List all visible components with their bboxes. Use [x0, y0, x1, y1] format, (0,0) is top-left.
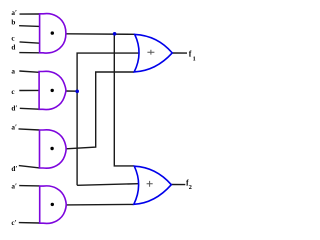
- svg-text:2: 2: [189, 184, 192, 191]
- svg-text:d: d: [11, 43, 15, 51]
- OR gate U1 for f1: [134, 34, 172, 72]
- wire input c of G1: [20, 42, 40, 43]
- wire input d' of G3: [19, 166, 40, 168]
- svg-text:c: c: [11, 34, 15, 42]
- G3 AND dot: [50, 147, 53, 150]
- wire G2 output stub: [66, 90, 77, 92]
- wire input a of G2: [19, 71, 39, 72]
- svg-text:f: f: [189, 49, 192, 58]
- wire G3 output up to OR1 bottom input: [66, 72, 134, 149]
- AND gate G2 (acd'): [39, 71, 66, 109]
- svg-text:1: 1: [193, 55, 196, 62]
- wire input a' of G1: [20, 13, 40, 15]
- svg-text:d′: d′: [11, 165, 17, 173]
- AND gate G1 (a'bcd): [40, 14, 66, 53]
- svg-text:b: b: [11, 19, 15, 27]
- wire G2 node vertical up then right to OR1 middle: [77, 53, 139, 185]
- wire G2 node down corner to OR2 middle: [77, 184, 138, 186]
- wire input d of G1: [19, 52, 39, 54]
- wire input c' of G4: [19, 222, 40, 224]
- wire input b of G1: [19, 25, 39, 28]
- svg-text:d′: d′: [11, 105, 17, 113]
- G1 AND dot: [51, 31, 54, 34]
- wire input a' of G3: [19, 129, 40, 130]
- OR1 plus sign: [147, 50, 154, 55]
- wire OR1 output to f1: [172, 52, 187, 54]
- node junction dot on G1 output: [113, 32, 117, 36]
- node junction dot on G2 output: [75, 90, 79, 94]
- G2 AND dot: [51, 89, 54, 92]
- wire OR2 output to f2: [171, 184, 185, 186]
- wire input c of G2: [19, 89, 39, 91]
- wire input d' of G2: [20, 107, 39, 110]
- svg-text:a: a: [11, 68, 15, 76]
- wire input a' of G4: [19, 185, 40, 187]
- wire node vertical down to OR2 top input: [114, 34, 134, 166]
- AND gate G3 (a'd'): [40, 130, 67, 168]
- G4 AND dot: [51, 203, 54, 206]
- OR gate U2 for f2: [134, 166, 172, 204]
- AND gate G4 (a'c'): [40, 186, 66, 224]
- svg-text:c: c: [11, 88, 15, 96]
- wire G4 output to OR2 bottom input: [66, 203, 134, 206]
- svg-text:c′: c′: [11, 219, 16, 227]
- wire G1 output to OR1 top: [66, 33, 135, 36]
- svg-text:a′: a′: [11, 123, 17, 131]
- svg-text:a′: a′: [11, 183, 17, 191]
- OR2 plus sign: [147, 181, 153, 187]
- svg-text:a′: a′: [11, 9, 17, 17]
